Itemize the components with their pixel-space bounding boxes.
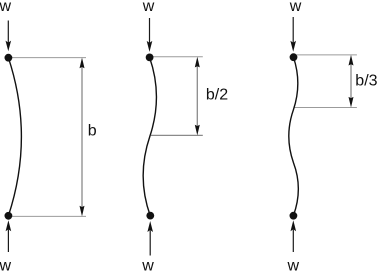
pin node bottom column 3: [290, 212, 298, 220]
pin node bottom column 2: [146, 212, 154, 220]
pin node bottom column 1: [4, 212, 12, 220]
extension line top column 3: [295, 54, 357, 56]
svg-text:w: w: [142, 0, 155, 15]
label w bottom column 1: [0, 257, 12, 274]
svg-text:w: w: [0, 0, 12, 15]
dimension line b/2 column 2: [195, 57, 200, 136]
svg-text:b/3: b/3: [355, 72, 377, 89]
label w top column 2: [142, 0, 155, 15]
label w bottom column 2: [141, 257, 154, 274]
dimension line b column 1: [80, 58, 85, 217]
extension line bottom column 1: [12, 215, 86, 217]
column 3 buckled shape (one and a half sine waves): [289, 57, 299, 215]
svg-text:w: w: [141, 257, 154, 274]
reaction arrow bottom column 3: [291, 220, 297, 252]
pin node top column 1: [4, 54, 12, 62]
label w top column 1: [0, 0, 12, 15]
load arrow top column 3: [290, 17, 296, 52]
extension line middle column 2: [151, 134, 203, 136]
pin node top column 3: [290, 53, 298, 61]
column 2 buckled shape (full sine wave): [143, 58, 156, 216]
label w top column 3: [289, 0, 302, 15]
column 1 buckled shape (half sine wave): [8, 58, 21, 216]
extension line top column 2: [153, 56, 203, 58]
svg-text:w: w: [287, 257, 300, 274]
extension line at third point column 3: [295, 107, 357, 109]
dimension line b/3 column 3: [349, 55, 354, 108]
svg-text:b: b: [88, 123, 97, 140]
svg-text:w: w: [289, 0, 302, 15]
extension line top column 1: [12, 57, 86, 59]
dimension label b/2: [206, 87, 228, 104]
load arrow top column 2: [147, 18, 153, 52]
reaction arrow bottom column 2: [147, 221, 153, 256]
dimension label b/3: [355, 72, 377, 89]
label w bottom column 3: [287, 257, 300, 274]
pin node top column 2: [146, 54, 154, 62]
reaction arrow bottom column 1: [6, 220, 12, 252]
svg-text:b/2: b/2: [206, 87, 228, 104]
load arrow top column 1: [6, 21, 12, 52]
svg-text:w: w: [0, 257, 12, 274]
dimension label b: [88, 123, 97, 140]
